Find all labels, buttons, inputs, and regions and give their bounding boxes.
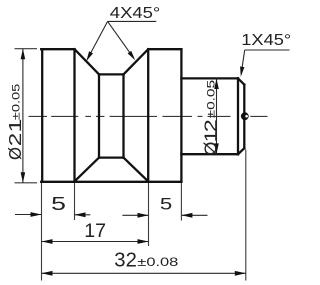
ext line right end vertical [245,150,247,281]
small cylinder top edge [181,77,238,79]
center hole dot at right end [241,112,249,120]
end chamfer bottom 1x45 [238,148,244,154]
dimension 5 right [122,195,207,218]
end chamfer top 1x45 [238,78,244,84]
dimension dia21 [5,49,25,183]
svg-text:±0.05: ±0.05 [11,84,23,121]
dimension dia12 [201,79,221,156]
groove top edge [99,73,124,75]
svg-text:2: 2 [201,119,221,132]
svg-text:±0.05: ±0.05 [205,80,217,119]
svg-text:5: 5 [51,193,66,214]
svg-text:17: 17 [84,220,106,242]
transition line left [73,49,75,182]
svg-text:4X45°: 4X45° [110,5,161,22]
dimension 17 [42,220,149,244]
leader branch right [108,21,132,55]
ext line transition left vertical [74,183,76,220]
ext line shoulder vertical [180,183,182,221]
ext line dia21 bottom [15,182,38,184]
part outline [41,49,244,182]
waist contour left [98,74,100,157]
leader 4X45 [86,5,160,61]
shoulder face [180,49,182,182]
top edge right flange [148,48,181,50]
groove chamfer bottom-left [75,158,100,182]
svg-text:2: 2 [5,133,25,147]
leader 1X45 [240,32,291,77]
svg-text:±0.08: ±0.08 [137,255,178,269]
dimension 5 left [15,193,90,217]
svg-text:5: 5 [160,195,172,214]
extension lines [15,49,246,281]
waist contour right [122,74,124,157]
dimension 32+-0.08 [42,248,246,275]
top edge left cylinder [41,48,74,50]
svg-text:Ø: Ø [5,147,25,160]
ext line transition right vertical [148,183,150,246]
groove chamfer top-right [124,49,149,74]
leader branch left [90,21,108,55]
transition line right [147,49,149,182]
small cylinder bottom edge [181,153,238,155]
groove chamfer top-left [75,49,100,74]
chamfer transition line small cylinder [237,78,239,154]
right end face [243,85,245,149]
left end face [41,49,43,182]
groove bottom edge [99,156,124,158]
centerline axis [29,115,268,117]
ext line left end vertical [41,183,43,281]
svg-text:32: 32 [114,248,137,271]
ext line dia21 top [15,48,38,50]
svg-text:Ø: Ø [201,141,221,155]
bottom edge big section [41,181,181,183]
svg-text:1X45°: 1X45° [241,32,291,49]
groove chamfer bottom-right [124,158,149,182]
